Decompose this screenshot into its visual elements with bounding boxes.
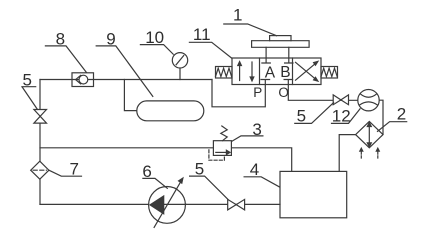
cooler 2 — [356, 121, 383, 158]
label 9 — [96, 30, 153, 97]
wire: gauge stem — [179, 68, 181, 80]
wire: main pressure line top — [40, 79, 212, 81]
svg-text:O: O — [278, 85, 289, 100]
wire: accumulator branch — [124, 80, 136, 111]
svg-text:B: B — [280, 64, 290, 81]
label 7 — [49, 160, 82, 179]
label 5 (suction line) — [190, 160, 229, 200]
label 4 — [244, 160, 280, 187]
wire: flow indicator to cooler — [379, 100, 383, 134]
label 2 — [378, 105, 407, 132]
wire: cooler outlet to tank — [339, 135, 355, 172]
tank 4 — [280, 171, 347, 217]
accumulator 9 — [137, 101, 204, 121]
svg-text:2: 2 — [397, 105, 406, 124]
label 12 — [332, 107, 361, 126]
directional valve left position arrows — [238, 62, 254, 81]
spring left — [216, 67, 233, 79]
label 8 — [45, 30, 86, 73]
label 11 — [189, 25, 232, 58]
wire: relief branch line — [40, 147, 213, 149]
filter 7 — [31, 161, 49, 179]
wire: left vertical supply line — [39, 80, 41, 205]
lever 1 — [270, 36, 291, 41]
directional valve right position crossed arrows — [296, 61, 318, 81]
wire: relief valve outlet to tank — [231, 148, 291, 172]
directional valve centre position port letters — [253, 64, 290, 100]
directional valve port T marks — [261, 47, 293, 84]
wire: bottom suction line to tank — [40, 203, 280, 205]
svg-text:11: 11 — [193, 25, 211, 44]
svg-text:P: P — [253, 85, 262, 100]
flow indicator 12 — [358, 90, 379, 111]
svg-text:1: 1 — [233, 6, 242, 25]
wire: valve port O return line — [288, 80, 358, 101]
shut-off valve 5 (left vertical line) — [34, 110, 47, 124]
shut-off valve 5 (return line) — [333, 95, 348, 105]
label 3 — [232, 120, 263, 141]
lever bracket plate — [252, 41, 310, 48]
shut-off valve 5 (suction line) — [228, 199, 245, 210]
spring right — [321, 67, 338, 79]
pump 6 — [149, 178, 186, 227]
label 10 — [140, 28, 173, 54]
label 1 — [224, 6, 277, 36]
label 5 (return line) — [295, 103, 334, 126]
pressure gauge 10 — [172, 53, 187, 68]
check valve 8 — [72, 73, 94, 87]
label 5 (left line) — [22, 70, 38, 109]
label 6 — [142, 162, 167, 188]
relief valve 3 — [209, 126, 232, 160]
wire: elbow from top line down and right to valve port P — [212, 80, 265, 107]
directional control valve 11: body — [232, 58, 321, 85]
